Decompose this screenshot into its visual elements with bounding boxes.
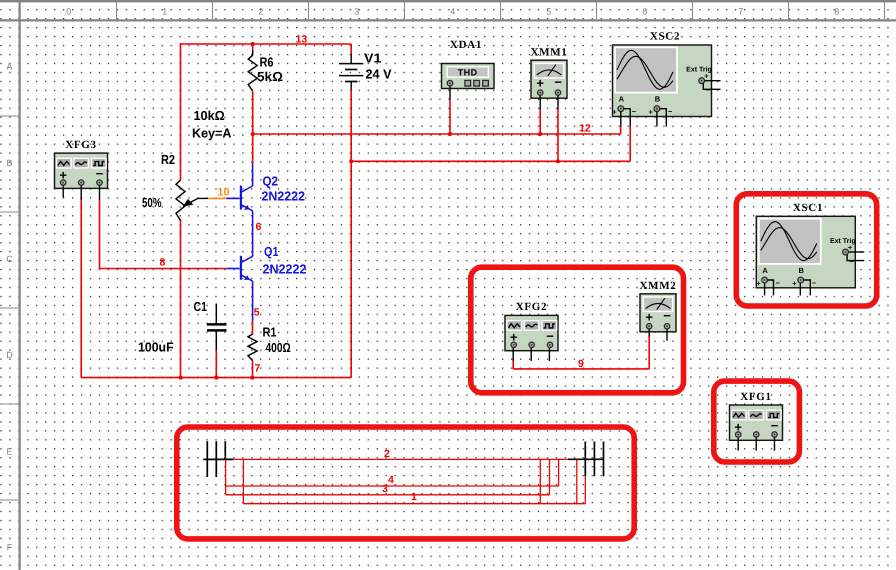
svg-text:8: 8	[834, 7, 839, 17]
svg-text:C: C	[6, 254, 13, 264]
svg-text:XMM1: XMM1	[530, 46, 567, 58]
svg-text:+: +	[848, 243, 853, 252]
svg-text:Q2: Q2	[263, 174, 279, 189]
svg-text:F: F	[7, 543, 13, 553]
svg-text:2: 2	[258, 7, 263, 17]
svg-text:4: 4	[388, 474, 394, 486]
svg-text:2: 2	[384, 448, 390, 460]
svg-text:3: 3	[382, 483, 388, 495]
svg-text:−: −	[771, 418, 779, 433]
svg-text:Q1: Q1	[264, 244, 279, 259]
svg-text:−: −	[812, 279, 817, 288]
svg-text:7: 7	[255, 363, 261, 375]
svg-text:+: +	[645, 309, 653, 324]
svg-text:5kΩ: 5kΩ	[257, 69, 283, 84]
svg-text:−: −	[546, 328, 554, 343]
svg-text:−: −	[850, 257, 855, 266]
svg-text:R1: R1	[263, 325, 277, 340]
svg-text:13: 13	[296, 34, 308, 46]
svg-text:A: A	[762, 266, 768, 275]
svg-text:XFG3: XFG3	[65, 139, 97, 151]
svg-text:+: +	[612, 108, 617, 117]
svg-text:Key=A: Key=A	[192, 126, 232, 141]
svg-text:XSC1: XSC1	[793, 202, 823, 214]
svg-text:THD: THD	[458, 68, 478, 78]
svg-text:−: −	[554, 74, 562, 89]
svg-text:B: B	[655, 95, 661, 104]
svg-text:6: 6	[642, 7, 647, 17]
svg-text:−: −	[632, 107, 637, 116]
svg-text:+: +	[756, 279, 761, 288]
svg-text:1: 1	[162, 7, 167, 17]
svg-text:R2: R2	[161, 152, 175, 167]
svg-text:E: E	[6, 446, 12, 456]
svg-text:7: 7	[738, 7, 743, 17]
svg-text:A: A	[6, 62, 12, 72]
svg-text:2N2222: 2N2222	[262, 189, 306, 204]
svg-text:100uF: 100uF	[138, 340, 174, 355]
svg-text:−: −	[663, 308, 671, 323]
svg-text:−: −	[706, 86, 711, 95]
svg-text:1: 1	[411, 491, 417, 503]
svg-text:B: B	[6, 158, 12, 168]
svg-text:+: +	[536, 76, 544, 91]
svg-text:XSC2: XSC2	[650, 31, 680, 43]
svg-text:V1: V1	[364, 51, 382, 66]
svg-text:+: +	[704, 72, 709, 81]
svg-text:+: +	[792, 279, 797, 288]
svg-text:XFG1: XFG1	[740, 391, 772, 403]
svg-text:2N2222: 2N2222	[263, 262, 307, 277]
svg-text:12: 12	[579, 123, 591, 135]
svg-text:50%: 50%	[142, 195, 162, 210]
svg-text:5: 5	[254, 307, 260, 319]
svg-text:24 V: 24 V	[366, 67, 392, 82]
svg-text:R6: R6	[260, 55, 274, 70]
svg-text:3: 3	[354, 7, 359, 17]
svg-text:10kΩ: 10kΩ	[194, 108, 225, 123]
svg-text:5: 5	[546, 7, 551, 17]
svg-text:+: +	[649, 108, 654, 117]
svg-text:−: −	[776, 279, 781, 288]
svg-text:400Ω: 400Ω	[266, 340, 291, 355]
svg-text:10: 10	[217, 187, 229, 199]
svg-text:C1: C1	[194, 299, 208, 314]
svg-text:D: D	[6, 350, 13, 360]
svg-text:9: 9	[578, 358, 584, 370]
svg-text:A: A	[619, 95, 625, 104]
svg-text:XFG2: XFG2	[516, 301, 548, 313]
svg-text:6: 6	[256, 221, 262, 233]
svg-text:−: −	[96, 166, 104, 181]
svg-text:XMM2: XMM2	[639, 280, 676, 292]
svg-text:0: 0	[66, 7, 71, 17]
svg-text:−: −	[668, 107, 673, 116]
svg-text:4: 4	[450, 7, 455, 17]
svg-text:XDA1: XDA1	[450, 39, 482, 51]
svg-text:B: B	[798, 266, 804, 275]
svg-text:8: 8	[160, 257, 166, 269]
